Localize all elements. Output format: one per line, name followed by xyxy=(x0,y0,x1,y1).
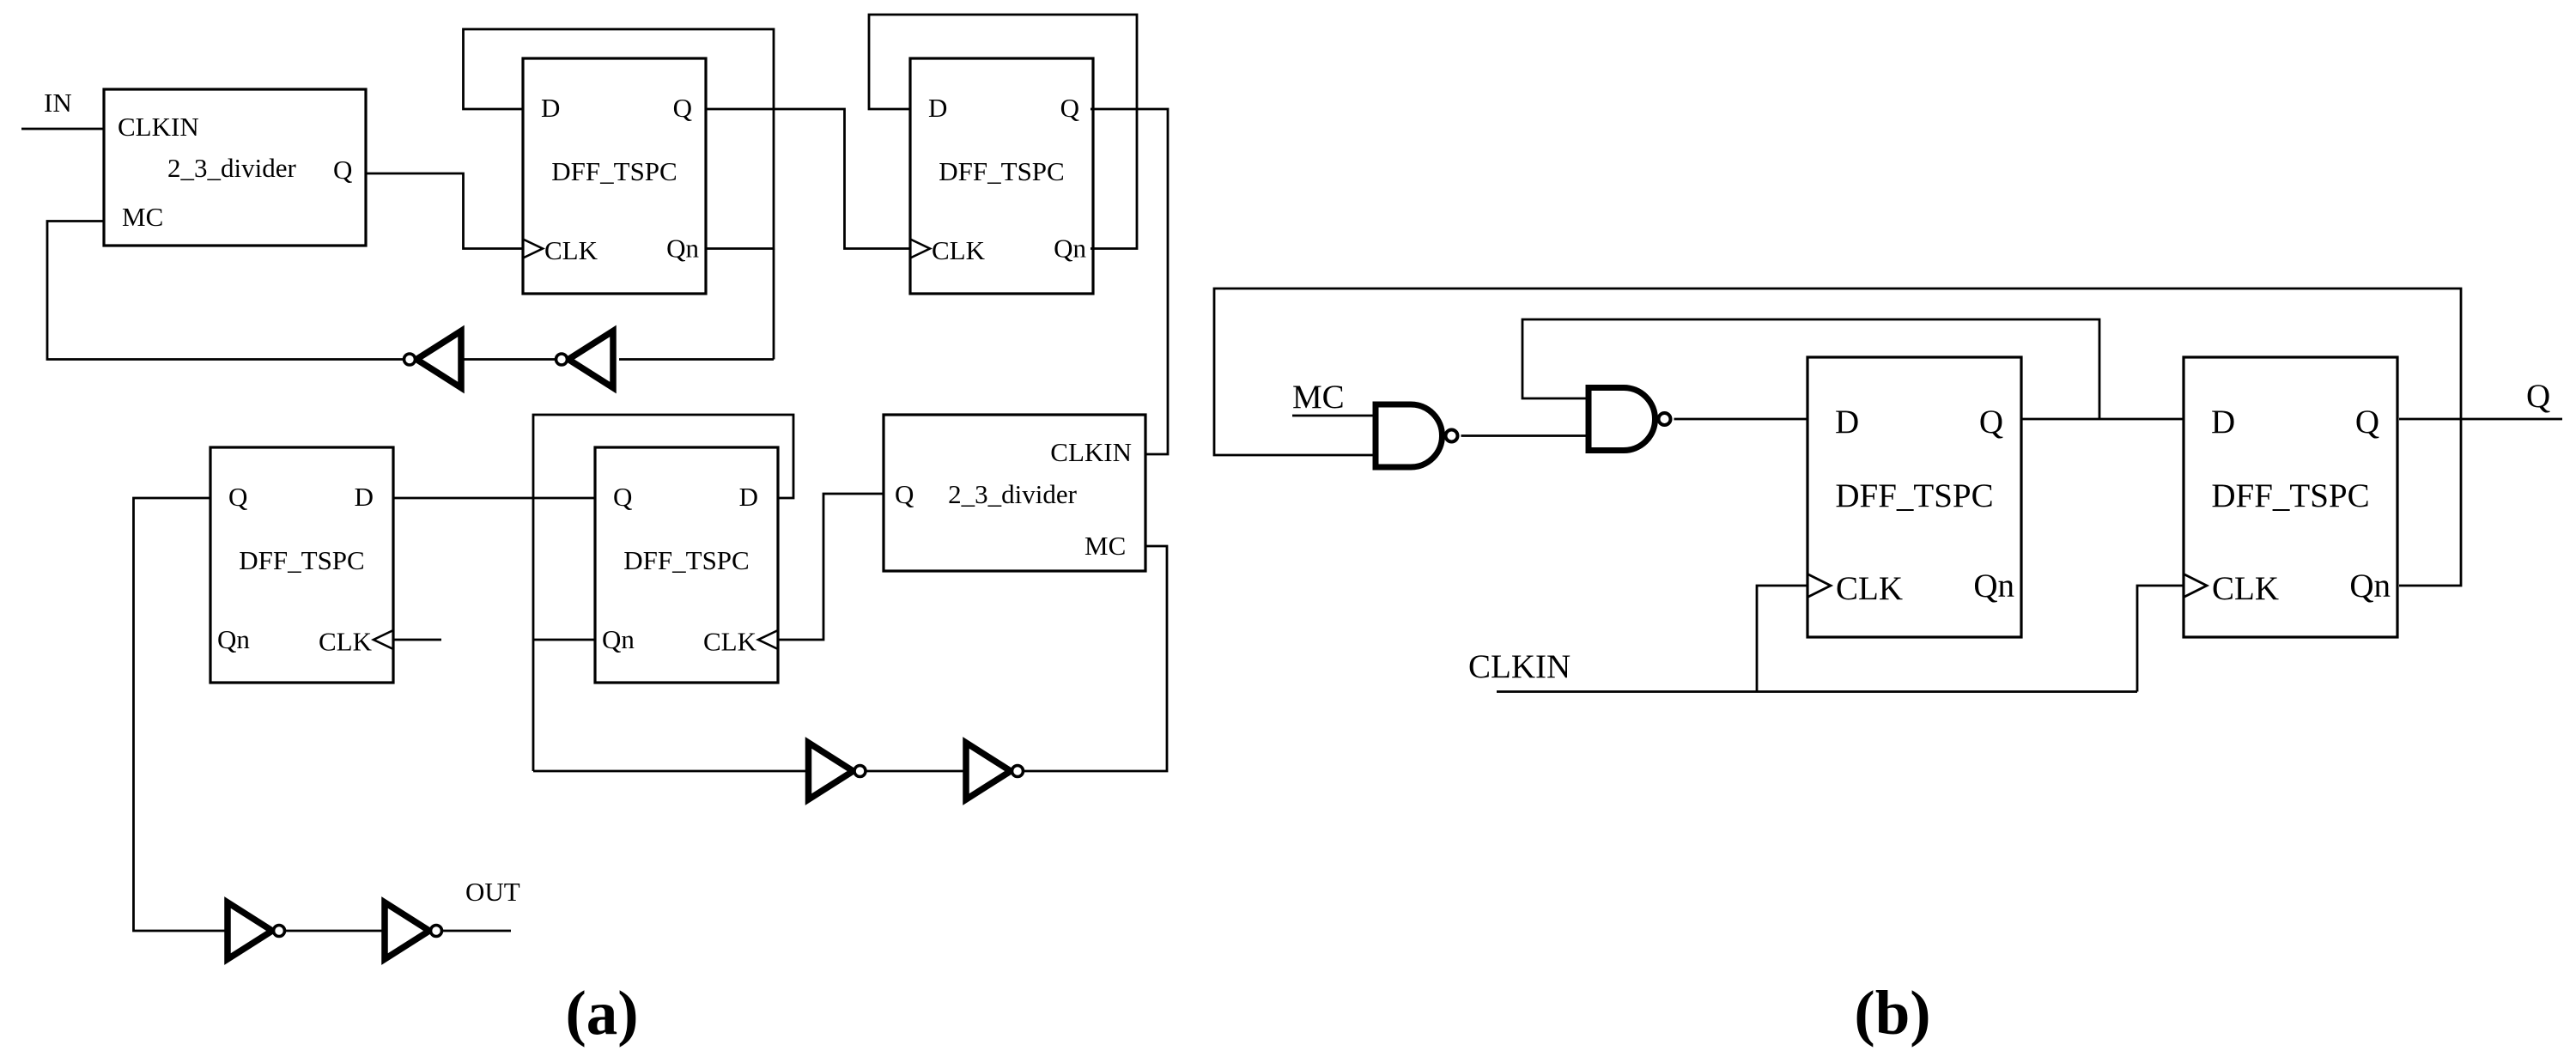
svg-text:DFF_TSPC: DFF_TSPC xyxy=(1835,477,1993,514)
wire inner feedback U7.Q to G2 input A xyxy=(1522,319,2099,419)
DFF U4 (mirrored) xyxy=(210,447,393,683)
svg-text:Q: Q xyxy=(228,482,247,512)
svg-text:CLKIN: CLKIN xyxy=(1468,648,1571,685)
inverter X1 xyxy=(404,331,462,388)
DFF U2 xyxy=(523,58,706,294)
clock edge triangle of U3 xyxy=(910,240,930,258)
clock edge triangle of U7 xyxy=(1807,574,1831,598)
svg-text:OUT: OUT xyxy=(465,877,520,907)
divider U1 with labels xyxy=(104,89,366,246)
svg-text:Qn: Qn xyxy=(217,624,250,654)
clock edge triangle of U8 xyxy=(2184,574,2207,598)
svg-text:Q: Q xyxy=(673,93,692,123)
wire X5 out to X6 in xyxy=(286,930,385,932)
DFF box U2 xyxy=(523,58,706,294)
wire CLKIN to U7.CLK xyxy=(1757,586,1807,692)
inverter X2 xyxy=(556,331,614,388)
wire G2 out to U7.D xyxy=(1674,418,1808,421)
clock edge triangle of U5 xyxy=(758,630,778,649)
wire U7.Q to U8.D xyxy=(2021,418,2184,421)
svg-text:DFF_TSPC: DFF_TSPC xyxy=(2211,477,2369,514)
svg-text:MC: MC xyxy=(1292,379,1345,416)
svg-text:CLKIN: CLKIN xyxy=(118,112,199,142)
DFF box U4 xyxy=(210,447,393,683)
svg-text:Q: Q xyxy=(613,482,632,512)
inverter X3 xyxy=(809,743,866,799)
wire U2.Q to U3.CLK xyxy=(706,109,910,249)
wire X2 out to X1 in xyxy=(461,358,556,361)
DFF box U7 xyxy=(1807,357,2021,637)
svg-text:Q: Q xyxy=(1979,404,2003,440)
wire chain from U5.Qn node xyxy=(533,770,809,773)
wire U2 feedback Qn to D xyxy=(464,29,775,249)
svg-text:MC: MC xyxy=(122,202,163,232)
wire U6.Q to U5.CLK xyxy=(778,494,884,640)
DFF box U5 xyxy=(595,447,778,683)
DFF U5 (mirrored) xyxy=(595,447,778,683)
wire U4.CLK open stub xyxy=(392,639,441,641)
svg-text:MC: MC xyxy=(1084,531,1126,561)
svg-text:D: D xyxy=(541,93,560,123)
wire U3 feedback Qn to D xyxy=(869,15,1137,249)
svg-text:Q: Q xyxy=(2526,378,2550,415)
svg-text:D: D xyxy=(2211,404,2235,440)
wire U4.Q down to output chain xyxy=(134,498,228,931)
wire X3 out to X4 in xyxy=(866,770,966,773)
svg-text:Q: Q xyxy=(895,479,914,509)
divider block U1 (2_3_divider) xyxy=(104,89,366,246)
DFF box U3 xyxy=(910,58,1093,294)
wire U2.Qn down to inverter chain xyxy=(773,249,775,360)
svg-text:DFF_TSPC: DFF_TSPC xyxy=(239,545,364,575)
wire X6 out to OUT xyxy=(443,930,511,932)
wire U3.Q to U6.CLKIN xyxy=(1091,109,1168,454)
svg-text:(b): (b) xyxy=(1854,978,1930,1048)
clock edge triangle of U2 xyxy=(523,240,543,258)
svg-text:CLK: CLK xyxy=(2212,570,2279,607)
svg-text:DFF_TSPC: DFF_TSPC xyxy=(939,156,1064,186)
NAND gate G2 xyxy=(1589,388,1671,451)
svg-text:Qn: Qn xyxy=(2349,568,2391,604)
wire MC to G1 input A xyxy=(1292,415,1376,417)
svg-text:CLKIN: CLKIN xyxy=(1050,437,1132,467)
svg-text:2_3_divider: 2_3_divider xyxy=(167,153,296,183)
wire inverter chain input (from node at 901,418.5) xyxy=(619,358,774,361)
svg-text:Q: Q xyxy=(333,155,352,185)
svg-text:D: D xyxy=(355,482,374,512)
DFF U3 xyxy=(910,58,1093,294)
svg-text:2_3_divider: 2_3_divider xyxy=(948,479,1077,509)
svg-text:CLK: CLK xyxy=(932,235,986,265)
DFF U8 xyxy=(2184,357,2397,637)
svg-text:CLK: CLK xyxy=(319,627,373,657)
svg-text:DFF_TSPC: DFF_TSPC xyxy=(623,545,749,575)
wire X4 out to U6.MC xyxy=(1024,546,1168,771)
wire X1 out to U1.MC xyxy=(47,222,404,360)
wire outer feedback U8.Qn to G1 input B xyxy=(1214,289,2461,586)
svg-text:Qn: Qn xyxy=(666,234,699,264)
wire CLKIN to U8.CLK xyxy=(2137,586,2184,692)
wire G1 out to G2 input B xyxy=(1461,434,1589,437)
svg-text:Qn: Qn xyxy=(1973,568,2014,604)
svg-text:D: D xyxy=(928,93,947,123)
DFF box U8 xyxy=(2184,357,2397,637)
svg-text:D: D xyxy=(1835,404,1859,440)
svg-text:Q: Q xyxy=(2355,404,2379,440)
svg-text:IN: IN xyxy=(44,88,72,118)
wire U8.Q to output Q xyxy=(2399,418,2562,421)
inverter X4 xyxy=(966,743,1024,799)
svg-text:CLK: CLK xyxy=(544,235,598,265)
wire U5 feedback loop xyxy=(533,415,793,771)
inverter X6 xyxy=(385,902,442,959)
svg-text:CLK: CLK xyxy=(1836,570,1903,607)
inverter X5 xyxy=(228,902,285,959)
svg-text:Qn: Qn xyxy=(602,624,635,654)
wire U5.Q to U4.D xyxy=(392,497,595,500)
wire CLKIN bus xyxy=(1497,690,2137,693)
svg-text:DFF_TSPC: DFF_TSPC xyxy=(551,156,677,186)
svg-text:(a): (a) xyxy=(565,978,638,1048)
svg-text:CLK: CLK xyxy=(703,627,757,657)
wire IN to U1.CLKIN xyxy=(21,128,104,131)
divider block U6 xyxy=(884,415,1145,571)
svg-text:Q: Q xyxy=(1060,93,1079,123)
svg-text:D: D xyxy=(739,482,758,512)
wire U5 feedback Qn to D and down to chain xyxy=(533,639,595,641)
DFF U7 xyxy=(1807,357,2021,637)
svg-text:Qn: Qn xyxy=(1054,234,1086,264)
wire U1.Q to U2.CLK xyxy=(366,173,523,249)
NAND gate G1 xyxy=(1376,404,1458,467)
divider U6 (2_3_divider) xyxy=(884,415,1145,571)
clock edge triangle of U4 xyxy=(374,630,393,649)
